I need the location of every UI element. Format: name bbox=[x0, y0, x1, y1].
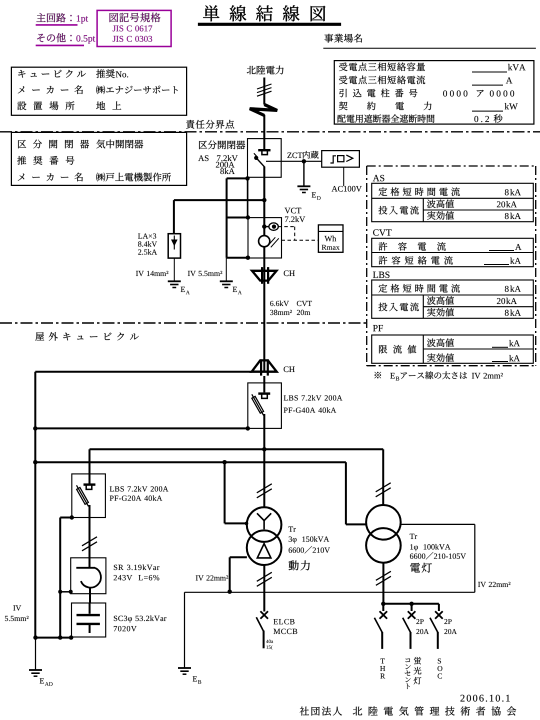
kWh meter box Wh Rmax bbox=[318, 225, 343, 252]
primary feed to pump transformer bbox=[263, 449, 265, 507]
wire earth bus to VCT box bottom corner bbox=[227, 257, 248, 259]
transformer Tr lighting (1-phase 100kVA) bbox=[366, 505, 401, 563]
earth stub wire to SR box bbox=[60, 591, 70, 593]
AS rating table bbox=[372, 175, 534, 222]
breaker ELCB cross mark bbox=[260, 611, 268, 619]
earth lead for ZCT circuit bbox=[303, 161, 305, 186]
earth down lead EAD bbox=[35, 638, 37, 670]
CVT rating table bbox=[372, 229, 534, 266]
site name label jigyoba-mei bbox=[323, 34, 536, 48]
wire from AS to ground-fault relay bbox=[266, 160, 322, 162]
lightning arrester LA bbox=[168, 234, 180, 258]
pump transformer secondary line bbox=[263, 565, 265, 612]
junction node delta earth tap bbox=[228, 590, 232, 594]
junction node LBS box earth corner bbox=[246, 426, 250, 430]
capacitor branch LBS switch with fuse bbox=[77, 474, 96, 558]
main line below VCT bbox=[263, 247, 265, 268]
label dohryoku (power) bbox=[289, 560, 310, 570]
VCT earth lead bbox=[225, 258, 227, 281]
enclosure earth wire LBS to left riser bbox=[35, 427, 248, 429]
label AC100V bbox=[332, 186, 362, 192]
VCT metering unit box bbox=[248, 218, 282, 258]
cubicle boundary dash-dot line bbox=[0, 322, 366, 324]
earth collector to ground bbox=[35, 637, 71, 639]
power company label Hokuriku Denryoku bbox=[247, 66, 284, 75]
earth wire to lighting transformer case bbox=[346, 462, 366, 524]
earth tie wire between AS and VCT boxes bbox=[247, 178, 249, 217]
main 6.6kV bus bbox=[90, 448, 384, 450]
shunt capacitor SC box bbox=[72, 603, 106, 637]
VT voltage transformer circle bbox=[259, 236, 270, 247]
labels LBS 7.2kV 200A PF-G20A 40kA bbox=[110, 486, 169, 501]
relay control supply wire bbox=[343, 167, 345, 186]
slash marks on lighting primary bbox=[376, 483, 391, 497]
cable head CH lower (upright) bbox=[252, 359, 277, 375]
dashed metering wire CT to meter bbox=[278, 227, 294, 241]
junction node branch 2 bbox=[409, 602, 413, 606]
ground symbol EB bbox=[178, 668, 201, 684]
cable head CH upper (inverted) bbox=[252, 267, 277, 284]
labels Tr 1phi 100kVA 6600/210-105V bbox=[410, 534, 466, 560]
legend main-circuit line weight 1pt bbox=[36, 13, 88, 25]
ground-fault relay box with step-square-gt symbols bbox=[322, 151, 360, 168]
high voltage cable run bbox=[263, 268, 265, 372]
junction node left earth riser bbox=[33, 426, 37, 430]
three-phase slash marks on incoming line bbox=[257, 84, 272, 96]
VT secondary slash marks bbox=[267, 237, 279, 247]
junction node VCT top corner bbox=[246, 215, 250, 219]
earth collector bus bbox=[35, 461, 346, 463]
ground symbol EA for arrester bbox=[168, 281, 190, 294]
legend other line weight 0.5pt bbox=[36, 33, 95, 45]
cable labels 6.6kV CVT 38mm2 20m bbox=[270, 301, 312, 315]
LBS rating table bbox=[372, 272, 534, 319]
arrester earth lead bbox=[173, 258, 175, 281]
labels SC3phi 53.2kVar 7020V bbox=[114, 615, 167, 631]
AS switch symbol bbox=[254, 139, 271, 201]
feed from main bus to lighting transformer bbox=[382, 449, 384, 505]
label outdoor cubicle okugai cubicle bbox=[35, 332, 138, 341]
branch circuit 1 cutout and switch THR bbox=[374, 604, 387, 649]
delta winding symbol bbox=[257, 544, 271, 558]
junction node main line to arrester branch bbox=[262, 198, 266, 202]
LBS main enclosure box bbox=[248, 383, 282, 429]
labels LBS 7.2kV 200A PF-G40A 40kA bbox=[284, 395, 343, 413]
branch circuit 2 cutout and switch 2P 20A bbox=[403, 604, 416, 649]
label VCT 7.2kV bbox=[285, 208, 306, 222]
spec table: receiving point data bbox=[334, 61, 534, 125]
junction node earth bus to pump transformer bbox=[222, 460, 226, 464]
ELCB breaker blade bbox=[256, 617, 263, 648]
wire earth bus to VCT box top corner bbox=[227, 217, 248, 219]
incoming service line bbox=[263, 78, 265, 105]
wye winding symbol bbox=[257, 513, 271, 529]
enclosure earth wire LBS2 bbox=[60, 518, 72, 638]
arrester rating labels LA x3 8.4kV 2.5kA bbox=[138, 233, 157, 254]
branch circuit 3 cutout and switch 2P 20A bbox=[430, 604, 443, 649]
earth riser from cable head bbox=[35, 372, 251, 638]
labels SR 3.19kVar 243V L=6% bbox=[114, 564, 160, 580]
junction node CT tap bbox=[262, 224, 266, 228]
lighting transformer secondary line bbox=[382, 563, 384, 604]
junction node at relay earth tap bbox=[302, 159, 306, 163]
slash marks on pump transformer primary bbox=[257, 484, 272, 498]
dashed metering wire VT to meter bbox=[282, 239, 319, 241]
junction node earth bus left end bbox=[33, 460, 37, 464]
date label 2006.10.1 bbox=[460, 695, 509, 702]
CT current transformer with polarity dot bbox=[264, 223, 278, 230]
symbol standard box JIS C 0617 / JIS C 0303 bbox=[97, 10, 171, 46]
disconnector AS enclosure box bbox=[248, 139, 282, 178]
earth wire to pump transformer case bbox=[225, 462, 249, 525]
lighting panel bus wire bbox=[383, 603, 439, 605]
junction node lighting panel bus bbox=[381, 602, 385, 606]
wire from bolt to AS bbox=[263, 115, 265, 139]
tiny breaker rating labels bbox=[266, 640, 273, 650]
label ZCT built-in bbox=[287, 151, 318, 159]
series reactor SR box bbox=[71, 558, 106, 594]
label IV 5.5mm2 bbox=[5, 605, 29, 621]
ground symbol EAD bbox=[29, 670, 53, 686]
slash marks on lighting secondary bbox=[376, 571, 391, 585]
ground symbol ED bbox=[297, 186, 320, 200]
junction nodes earth collector bbox=[33, 635, 73, 639]
capacitor symbol bbox=[77, 603, 100, 633]
junction nodes reactor earth stub bbox=[58, 590, 72, 594]
earth lead down to EB ground bbox=[184, 592, 186, 667]
junction node main bus and transformer feed bbox=[262, 447, 266, 451]
earth wire from delta winding to EB bbox=[230, 557, 247, 591]
wire bus to capacitor branch LBS bbox=[89, 449, 91, 474]
label CH upper bbox=[284, 270, 295, 276]
junction node VCT bottom corner bbox=[246, 256, 250, 260]
slash marks on pump secondary bbox=[257, 572, 272, 586]
wire main line to lightning arrester bbox=[174, 200, 264, 234]
label IV 5.5mm2 earth wire bbox=[188, 271, 222, 276]
series reactor symbol bbox=[76, 558, 101, 603]
label dento (lighting) bbox=[410, 563, 432, 573]
label kubun kaiheiki (section switch) bbox=[199, 140, 245, 149]
supply lightning-bolt break symbol bbox=[250, 105, 278, 116]
main LBS switch with power fuse bbox=[252, 376, 270, 449]
labels ELCB MCCB bbox=[274, 619, 298, 634]
demarcation dash-dot boundary line bbox=[0, 131, 540, 133]
title tanzen-kessenzu (single line diagram) bbox=[198, 5, 341, 24]
cubicle maker info box bbox=[11, 67, 186, 115]
sectionalizing switch maker info box bbox=[11, 132, 186, 185]
label CH lower bbox=[284, 366, 295, 372]
slash marks on capacitor feeder bbox=[82, 537, 97, 551]
association credit line bbox=[300, 706, 516, 715]
ground symbol EA for VCT metering bbox=[220, 281, 242, 294]
labels 2P 20A branch 3 bbox=[444, 619, 457, 634]
labels Tr 3phi 150kVA 6600/210V bbox=[288, 527, 330, 554]
dash-dot border around rating tables bbox=[367, 166, 536, 366]
capacitor LBS enclosure box bbox=[72, 474, 106, 518]
PF rating table bbox=[372, 325, 534, 363]
vertical labels concent and keikoto bbox=[405, 657, 422, 689]
labels 2P 20A branch 2 bbox=[416, 619, 429, 634]
vertical label SOC bbox=[438, 658, 443, 678]
main line through VCT bbox=[263, 200, 265, 236]
transformer Tr pump (3-phase 150kVA) bbox=[247, 507, 282, 565]
label IV 22mm2 right bbox=[478, 582, 510, 587]
label IV 14mm2 earth wire bbox=[136, 271, 168, 276]
junction node LBS2 earth corner bbox=[70, 515, 74, 519]
label IV 22mm2 left bbox=[196, 575, 228, 580]
AS rating labels 7.2kV 200A 8kA bbox=[198, 155, 238, 174]
vertical label THR bbox=[380, 659, 385, 679]
enclosure earth wire from AS box corner bbox=[227, 178, 248, 257]
junction node AS box bottom corner bbox=[245, 176, 249, 180]
B-class earth loop around lighting transformer bbox=[185, 524, 475, 592]
responsibility demarcation point label bbox=[186, 120, 234, 129]
note EB earth wire size bbox=[375, 371, 503, 380]
